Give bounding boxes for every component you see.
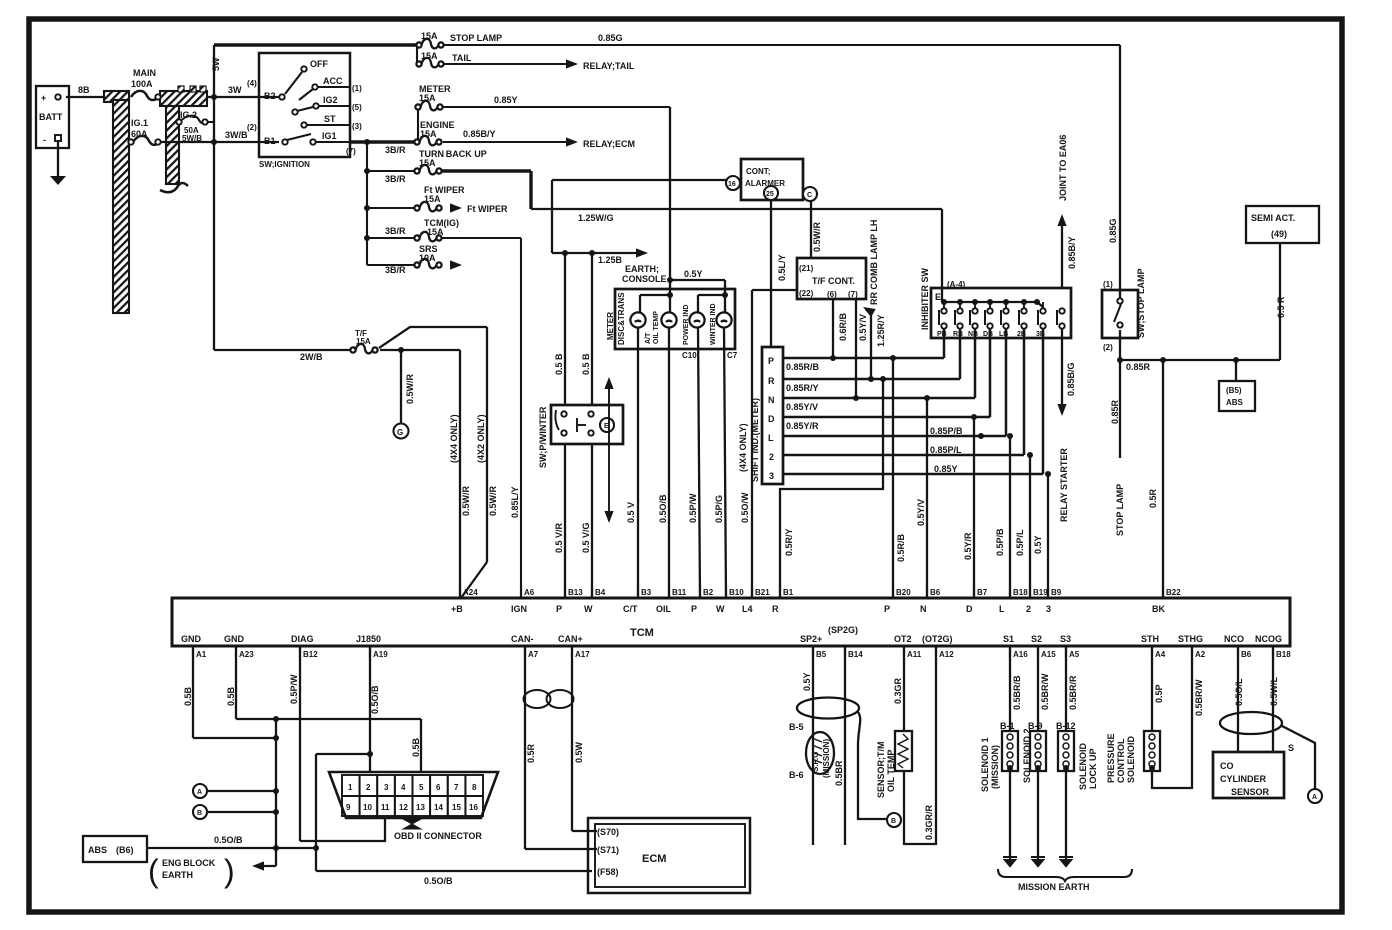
- svg-text:B-12: B-12: [1056, 721, 1076, 731]
- svg-text:PRESSURE: PRESSURE: [1106, 733, 1116, 783]
- svg-text:+: +: [41, 93, 46, 103]
- svg-text:0.5Y: 0.5Y: [684, 269, 703, 279]
- svg-text:15A: 15A: [424, 194, 441, 204]
- svg-text:0.85P/L: 0.85P/L: [930, 445, 962, 455]
- svg-text:0.5Y: 0.5Y: [802, 672, 812, 691]
- svg-text:(OT2G): (OT2G): [922, 634, 953, 644]
- svg-text:B9: B9: [1051, 588, 1062, 597]
- svg-text:0.85B/Y: 0.85B/Y: [1067, 236, 1077, 269]
- svg-text:P: P: [768, 356, 774, 366]
- svg-text:OIL TEMP: OIL TEMP: [653, 311, 660, 344]
- svg-text:P: P: [884, 604, 890, 614]
- svg-text:CAN+: CAN+: [558, 634, 583, 644]
- svg-text:0.85Y: 0.85Y: [494, 95, 518, 105]
- svg-text:A23: A23: [239, 650, 254, 659]
- svg-text:4: 4: [401, 783, 406, 792]
- svg-text:EARTH: EARTH: [162, 870, 193, 880]
- svg-text:1.25B: 1.25B: [598, 255, 623, 265]
- svg-text:): ): [224, 853, 235, 889]
- svg-text:(B5): (B5): [1226, 386, 1242, 395]
- svg-text:SENSOR: SENSOR: [1231, 787, 1270, 797]
- svg-text:B20: B20: [896, 588, 911, 597]
- svg-text:(6): (6): [827, 290, 837, 299]
- svg-text:STOP LAMP: STOP LAMP: [450, 33, 502, 43]
- svg-text:5W: 5W: [211, 57, 221, 71]
- svg-text:STOP LAMP: STOP LAMP: [1115, 484, 1125, 536]
- svg-text:0.5Y/V: 0.5Y/V: [916, 499, 926, 526]
- svg-text:B5: B5: [816, 650, 827, 659]
- svg-text:15A: 15A: [419, 93, 436, 103]
- svg-text:B4: B4: [595, 588, 606, 597]
- svg-text:15A: 15A: [421, 31, 438, 41]
- svg-text:0.5P: 0.5P: [1154, 684, 1164, 703]
- svg-text:5: 5: [419, 783, 424, 792]
- svg-text:D: D: [768, 414, 775, 424]
- svg-text:E: E: [935, 292, 941, 302]
- svg-text:RELAY;TAIL: RELAY;TAIL: [583, 61, 635, 71]
- svg-text:0.5BR/R: 0.5BR/R: [1068, 675, 1078, 710]
- svg-text:SOLENOID: SOLENOID: [1078, 742, 1088, 790]
- svg-text:S1: S1: [1003, 634, 1014, 644]
- svg-text:0.5W/R: 0.5W/R: [812, 221, 822, 252]
- svg-text:11: 11: [381, 803, 390, 812]
- svg-text:0.6R/B: 0.6R/B: [838, 312, 848, 341]
- svg-text:0.85Y: 0.85Y: [934, 464, 958, 474]
- svg-text:(5): (5): [352, 103, 362, 112]
- svg-text:0.5BR/W: 0.5BR/W: [1194, 679, 1204, 716]
- svg-text:A24: A24: [463, 588, 478, 597]
- svg-text:SENSOR;T/M: SENSOR;T/M: [876, 741, 886, 798]
- svg-text:B: B: [197, 810, 202, 817]
- svg-text:S: S: [1288, 743, 1294, 753]
- svg-text:BK: BK: [1152, 604, 1165, 614]
- svg-text:INHIBITER SW: INHIBITER SW: [920, 267, 930, 330]
- svg-text:CONTROL: CONTROL: [1116, 738, 1126, 783]
- svg-text:3: 3: [1046, 604, 1051, 614]
- svg-text:C10: C10: [682, 351, 697, 360]
- svg-text:SW;P/WINTER: SW;P/WINTER: [538, 406, 548, 468]
- svg-text:0.5 V: 0.5 V: [626, 502, 636, 523]
- svg-text:OIL: OIL: [656, 604, 672, 614]
- svg-text:(MISSION): (MISSION): [822, 739, 831, 778]
- svg-text:3B: 3B: [1036, 331, 1045, 338]
- svg-text:(2): (2): [1103, 343, 1113, 352]
- svg-text:2: 2: [366, 783, 371, 792]
- svg-text:15: 15: [452, 803, 461, 812]
- svg-text:0.5W/R: 0.5W/R: [405, 373, 415, 404]
- svg-text:NCOG: NCOG: [1255, 634, 1282, 644]
- svg-text:0.85R: 0.85R: [1110, 399, 1120, 424]
- svg-text:(2): (2): [247, 123, 257, 132]
- svg-text:0.85B/Y: 0.85B/Y: [463, 129, 496, 139]
- svg-text:B11: B11: [672, 588, 687, 597]
- svg-text:A12: A12: [939, 650, 954, 659]
- svg-text:1: 1: [348, 783, 353, 792]
- svg-text:1.25R/Y: 1.25R/Y: [876, 314, 886, 347]
- svg-text:10A: 10A: [419, 253, 436, 263]
- svg-text:(F58): (F58): [597, 867, 619, 877]
- svg-text:CAN-: CAN-: [511, 634, 534, 644]
- svg-text:(S70): (S70): [597, 827, 619, 837]
- svg-text:IGN: IGN: [511, 604, 527, 614]
- svg-text:0.5R: 0.5R: [526, 743, 536, 763]
- svg-text:A/T: A/T: [645, 332, 652, 344]
- svg-text:ABS (B6): ABS (B6): [88, 845, 134, 855]
- svg-text:0.5L/Y: 0.5L/Y: [777, 254, 787, 281]
- svg-text:A: A: [197, 789, 202, 796]
- svg-text:0.5P/W: 0.5P/W: [688, 493, 698, 523]
- svg-text:0.5BR: 0.5BR: [834, 760, 844, 786]
- svg-text:-: -: [43, 135, 46, 145]
- svg-text:SP2+: SP2+: [800, 634, 822, 644]
- svg-text:RELAY;ECM: RELAY;ECM: [583, 139, 635, 149]
- svg-text:B2: B2: [703, 588, 714, 597]
- svg-text:+B: +B: [451, 604, 463, 614]
- svg-text:(21): (21): [799, 264, 814, 273]
- svg-text:LB: LB: [999, 331, 1008, 338]
- svg-text:3B/R: 3B/R: [385, 145, 406, 155]
- svg-text:SW;IGNITION: SW;IGNITION: [259, 160, 310, 169]
- svg-text:B1: B1: [264, 136, 276, 146]
- svg-text:DB: DB: [983, 331, 993, 338]
- svg-text:MAIN: MAIN: [133, 68, 156, 78]
- svg-text:A7: A7: [528, 650, 539, 659]
- svg-text:METER: METER: [606, 312, 615, 340]
- svg-text:8B: 8B: [78, 85, 90, 95]
- svg-text:(3): (3): [352, 122, 362, 131]
- svg-text:0.5Y/V: 0.5Y/V: [858, 314, 868, 341]
- svg-text:T/F CONT.: T/F CONT.: [812, 276, 855, 286]
- svg-text:D: D: [966, 604, 973, 614]
- svg-text:OBD II CONNECTOR: OBD II CONNECTOR: [394, 831, 482, 841]
- svg-text:A6: A6: [524, 588, 535, 597]
- svg-text:0.85Y/R: 0.85Y/R: [786, 421, 819, 431]
- svg-text:2B: 2B: [1017, 331, 1026, 338]
- svg-text:STHG: STHG: [1178, 634, 1203, 644]
- svg-text:SOLENOID 2: SOLENOID 2: [1022, 728, 1032, 783]
- svg-text:A19: A19: [373, 650, 388, 659]
- svg-text:3B/R: 3B/R: [385, 265, 406, 275]
- svg-text:(MISSION): (MISSION): [990, 745, 1000, 789]
- svg-text:ST: ST: [324, 114, 336, 124]
- svg-text:0.5B: 0.5B: [183, 686, 193, 706]
- svg-text:0.5P/B: 0.5P/B: [995, 528, 1005, 556]
- svg-text:B13: B13: [568, 588, 583, 597]
- svg-text:15A: 15A: [421, 51, 438, 61]
- svg-text:TAIL: TAIL: [452, 53, 472, 63]
- svg-text:ACC: ACC: [323, 76, 343, 86]
- svg-text:DISC&TRANS: DISC&TRANS: [617, 292, 626, 345]
- svg-text:POWER IND: POWER IND: [683, 305, 690, 345]
- svg-text:SEMI ACT.: SEMI ACT.: [1251, 213, 1295, 223]
- svg-text:0.5W/R: 0.5W/R: [461, 485, 471, 516]
- svg-text:2W/B: 2W/B: [300, 352, 323, 362]
- svg-text:A1: A1: [196, 650, 207, 659]
- svg-text:(4X4 ONLY): (4X4 ONLY): [449, 414, 459, 463]
- svg-text:15A: 15A: [420, 129, 437, 139]
- svg-text:P: P: [556, 604, 562, 614]
- svg-text:3: 3: [769, 471, 774, 481]
- svg-text:DIAG: DIAG: [291, 634, 314, 644]
- svg-text:0.5R/B: 0.5R/B: [896, 533, 906, 562]
- svg-text:3W/B: 3W/B: [225, 130, 248, 140]
- svg-text:0.5B: 0.5B: [226, 686, 236, 706]
- svg-text:B6: B6: [1241, 650, 1252, 659]
- svg-text:IG.1: IG.1: [131, 118, 148, 128]
- svg-text:0.5P/L: 0.5P/L: [1015, 529, 1025, 556]
- svg-text:STH: STH: [1141, 634, 1159, 644]
- svg-text:B21: B21: [755, 588, 770, 597]
- svg-text:0.5O/L: 0.5O/L: [1234, 678, 1244, 706]
- svg-text:A16: A16: [1013, 650, 1028, 659]
- svg-text:0.5P/W: 0.5P/W: [289, 674, 299, 704]
- svg-text:25: 25: [766, 191, 774, 198]
- svg-text:Ft WIPER: Ft WIPER: [467, 204, 508, 214]
- svg-text:3B/R: 3B/R: [385, 174, 406, 184]
- svg-text:12: 12: [399, 803, 408, 812]
- svg-text:N: N: [920, 604, 927, 614]
- svg-text:W: W: [716, 604, 725, 614]
- svg-text:0.85P/B: 0.85P/B: [930, 426, 963, 436]
- svg-text:0.5W: 0.5W: [574, 741, 584, 763]
- svg-text:0.5O/B: 0.5O/B: [370, 685, 380, 714]
- svg-text:15A: 15A: [356, 337, 371, 346]
- svg-text:SOLENOID: SOLENOID: [1126, 735, 1136, 783]
- svg-text:B-1: B-1: [1000, 721, 1015, 731]
- svg-text:3: 3: [384, 783, 389, 792]
- svg-text:16: 16: [728, 181, 736, 188]
- svg-text:A2: A2: [1195, 650, 1206, 659]
- svg-text:W: W: [584, 604, 593, 614]
- svg-text:CO: CO: [1220, 761, 1234, 771]
- svg-text:IG1: IG1: [322, 131, 337, 141]
- svg-text:NB: NB: [968, 331, 978, 338]
- svg-text:OFF: OFF: [310, 59, 328, 69]
- svg-text:LOCK UP: LOCK UP: [1088, 749, 1098, 790]
- svg-text:0.85B/G: 0.85B/G: [1066, 362, 1076, 396]
- svg-text:(A-4): (A-4): [947, 280, 966, 289]
- svg-text:0.5 B: 0.5 B: [554, 353, 564, 375]
- svg-text:0.85L/Y: 0.85L/Y: [510, 486, 520, 518]
- svg-text:0.85G: 0.85G: [598, 33, 623, 43]
- svg-text:R: R: [768, 376, 775, 386]
- svg-text:2: 2: [1026, 604, 1031, 614]
- svg-text:B18: B18: [1276, 650, 1291, 659]
- svg-text:B3: B3: [641, 588, 652, 597]
- svg-text:15A: 15A: [419, 158, 436, 168]
- svg-text:L: L: [768, 433, 774, 443]
- svg-text:0.5BR/B: 0.5BR/B: [1012, 675, 1022, 710]
- svg-text:CONT;: CONT;: [746, 167, 770, 176]
- svg-text:CYLINDER: CYLINDER: [1220, 774, 1267, 784]
- svg-text:L4: L4: [742, 604, 753, 614]
- svg-text:15A: 15A: [427, 227, 444, 237]
- svg-text:0.5R: 0.5R: [1148, 488, 1158, 508]
- svg-text:13: 13: [416, 803, 425, 812]
- svg-text:B18: B18: [1013, 588, 1028, 597]
- svg-text:(SP2G): (SP2G): [828, 625, 858, 635]
- svg-text:ENG BLOCK: ENG BLOCK: [162, 858, 216, 868]
- svg-text:A5: A5: [1069, 650, 1080, 659]
- svg-text:0.85R: 0.85R: [1126, 362, 1151, 372]
- svg-text:A4: A4: [1155, 650, 1166, 659]
- svg-text:(: (: [148, 853, 159, 889]
- svg-text:8: 8: [472, 783, 477, 792]
- svg-text:0.5 V/R: 0.5 V/R: [554, 522, 564, 553]
- svg-text:(1): (1): [1103, 280, 1113, 289]
- svg-text:B1: B1: [783, 588, 794, 597]
- svg-text:0.5W/L: 0.5W/L: [1269, 676, 1279, 706]
- svg-text:16: 16: [469, 803, 478, 812]
- svg-text:B14: B14: [848, 650, 863, 659]
- svg-text:0.5W/R: 0.5W/R: [488, 485, 498, 516]
- svg-text:N: N: [768, 395, 775, 405]
- svg-text:TCM: TCM: [630, 627, 654, 639]
- svg-text:(1): (1): [352, 84, 362, 93]
- svg-text:SW;STOP LAMP: SW;STOP LAMP: [1136, 268, 1146, 338]
- svg-text:(4X2 ONLY): (4X2 ONLY): [476, 414, 486, 463]
- svg-text:C7: C7: [727, 351, 738, 360]
- svg-text:3W: 3W: [228, 85, 242, 95]
- svg-text:7: 7: [454, 783, 459, 792]
- svg-text:P: P: [691, 604, 697, 614]
- svg-text:0.5 B: 0.5 B: [581, 353, 591, 375]
- svg-text:PB: PB: [937, 331, 947, 338]
- svg-text:B7: B7: [977, 588, 988, 597]
- svg-text:A: A: [1312, 794, 1317, 801]
- svg-text:J1850: J1850: [356, 634, 381, 644]
- svg-text:A15: A15: [1041, 650, 1056, 659]
- svg-text:0.5Y/R: 0.5Y/R: [963, 532, 973, 560]
- svg-text:C: C: [807, 192, 812, 199]
- svg-text:OIL TEMP: OIL TEMP: [886, 750, 896, 792]
- svg-text:0.5BR/W: 0.5BR/W: [1040, 673, 1050, 710]
- svg-text:0.5P/G: 0.5P/G: [714, 495, 724, 523]
- svg-text:JOINT TO EA06: JOINT TO EA06: [1058, 135, 1068, 201]
- svg-text:S3: S3: [1060, 634, 1071, 644]
- svg-text:SHIFT IND.(METER): SHIFT IND.(METER): [750, 398, 760, 482]
- svg-text:(S71): (S71): [597, 845, 619, 855]
- svg-text:0.5B: 0.5B: [411, 737, 421, 757]
- svg-text:NCO: NCO: [1224, 634, 1244, 644]
- svg-text:GND: GND: [224, 634, 245, 644]
- svg-text:ALARMER: ALARMER: [745, 179, 785, 188]
- svg-text:(22): (22): [799, 289, 814, 298]
- svg-text:0.3GR/R: 0.3GR/R: [924, 804, 934, 840]
- svg-text:B-5: B-5: [789, 722, 804, 732]
- svg-text:(7): (7): [346, 147, 356, 156]
- svg-text:9: 9: [346, 803, 351, 812]
- svg-text:SOLENOID 1: SOLENOID 1: [980, 737, 990, 792]
- svg-text:L: L: [999, 604, 1005, 614]
- svg-text:B6: B6: [930, 588, 941, 597]
- svg-text:A17: A17: [575, 650, 590, 659]
- svg-text:14: 14: [434, 803, 443, 812]
- svg-text:0.5O/B: 0.5O/B: [658, 494, 668, 523]
- svg-text:B19: B19: [1033, 588, 1048, 597]
- svg-text:B10: B10: [729, 588, 744, 597]
- svg-text:0.3GR: 0.3GR: [893, 677, 903, 704]
- svg-text:RELAY STARTER: RELAY STARTER: [1059, 448, 1069, 522]
- svg-text:(49): (49): [1271, 229, 1287, 239]
- svg-text:2: 2: [769, 452, 774, 462]
- svg-text:GND: GND: [181, 634, 202, 644]
- svg-text:B-6: B-6: [789, 770, 804, 780]
- svg-text:ABS: ABS: [1226, 398, 1244, 407]
- svg-text:0.5R/Y: 0.5R/Y: [784, 528, 794, 556]
- svg-text:0.5 R: 0.5 R: [1276, 296, 1286, 318]
- svg-text:ECM: ECM: [642, 853, 666, 865]
- svg-text:0.85R/B: 0.85R/B: [786, 362, 820, 372]
- svg-text:S2: S2: [1031, 634, 1042, 644]
- svg-text:A11: A11: [907, 650, 922, 659]
- svg-text:0.5O/B: 0.5O/B: [214, 835, 243, 845]
- svg-text:G: G: [397, 428, 403, 437]
- svg-text:6: 6: [436, 783, 441, 792]
- svg-text:(4): (4): [247, 79, 257, 88]
- svg-text:OT2: OT2: [894, 634, 912, 644]
- svg-text:(7): (7): [848, 290, 858, 299]
- svg-text:0.85G: 0.85G: [1108, 218, 1118, 243]
- svg-text:RR COMB LAMP LH: RR COMB LAMP LH: [869, 220, 879, 305]
- svg-text:C/T: C/T: [623, 604, 638, 614]
- svg-text:B: B: [891, 818, 896, 825]
- svg-text:0.5O/W: 0.5O/W: [740, 492, 750, 523]
- svg-text:(4X4 ONLY): (4X4 ONLY): [738, 423, 748, 472]
- svg-text:0.5Y: 0.5Y: [1033, 535, 1043, 554]
- svg-text:3B/R: 3B/R: [385, 226, 406, 236]
- svg-text:0.85Y/V: 0.85Y/V: [786, 402, 818, 412]
- svg-text:R: R: [772, 604, 779, 614]
- svg-text:0.5 V/G: 0.5 V/G: [581, 522, 591, 553]
- svg-text:BATT: BATT: [39, 112, 63, 122]
- svg-text:S.P.G: S.P.G: [811, 752, 820, 772]
- svg-text:10: 10: [363, 803, 372, 812]
- svg-text:0.5O/B: 0.5O/B: [424, 876, 453, 886]
- svg-text:1.25W/G: 1.25W/G: [578, 213, 614, 223]
- svg-text:IG2: IG2: [323, 95, 338, 105]
- svg-text:RB: RB: [953, 331, 963, 338]
- svg-text:100A: 100A: [131, 79, 153, 89]
- svg-text:EARTH;: EARTH;: [625, 264, 659, 274]
- svg-text:WINTER IND: WINTER IND: [710, 303, 717, 345]
- svg-text:B22: B22: [1166, 588, 1181, 597]
- svg-text:B12: B12: [303, 650, 318, 659]
- svg-text:CONSOLE: CONSOLE: [622, 274, 667, 284]
- svg-text:MISSION EARTH: MISSION EARTH: [1018, 882, 1090, 892]
- svg-text:0.85R/Y: 0.85R/Y: [786, 383, 819, 393]
- svg-text:B2: B2: [264, 91, 276, 101]
